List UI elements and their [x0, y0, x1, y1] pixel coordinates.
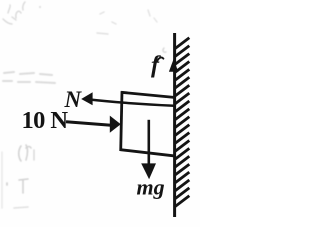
scan noise artifacts: [3, 2, 166, 52]
scan noise: faint text band left middle: [3, 72, 55, 83]
normal force N arrowhead: [81, 92, 92, 105]
block bottom edge: [120, 150, 174, 156]
weight mg arrowhead: [141, 163, 156, 179]
normal force N arrow shaft (wall to left): [84, 99, 174, 106]
wall line: [173, 33, 176, 217]
svg-text:10 N: 10 N: [22, 107, 69, 134]
friction arrowhead f (on wall, pointing up): [169, 59, 178, 72]
svg-text:f: f: [151, 53, 161, 79]
weight mg arrow shaft: [148, 120, 151, 166]
svg-text:mg: mg: [137, 175, 165, 200]
block left edge: [121, 91, 122, 151]
scan noise: left margin marks: [2, 145, 34, 208]
applied force 10 N arrowhead: [110, 116, 121, 133]
wall hatching: [175, 38, 190, 207]
block top edge: [121, 92, 174, 97]
applied force 10 N arrow shaft: [66, 122, 111, 125]
